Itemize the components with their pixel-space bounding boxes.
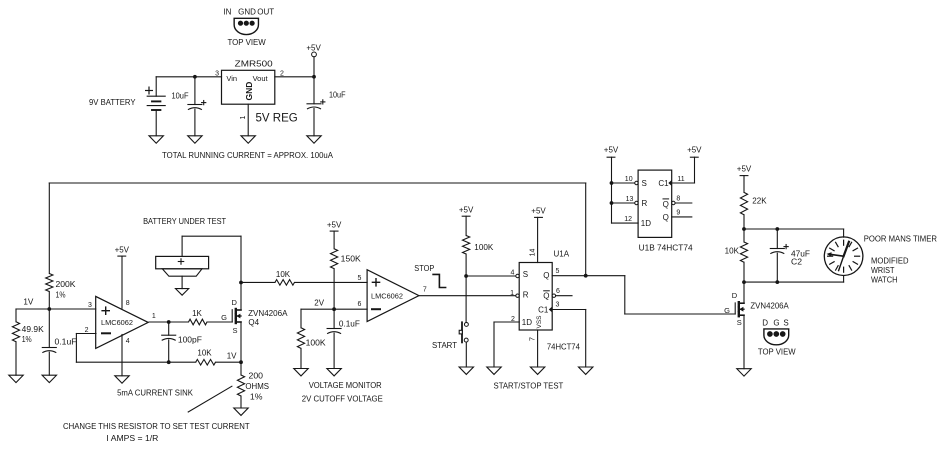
- ground VSS U1A: [530, 367, 544, 374]
- ground 200 ohm: [234, 408, 248, 415]
- svg-text:0.1uF: 0.1uF: [55, 337, 77, 346]
- capacitor C? 0.1uF sink: [42, 309, 76, 375]
- resistor R? 200 OHMS 1%: [237, 362, 269, 408]
- node +5V U1B clock: [672, 146, 702, 183]
- wire Vin: [156, 76, 221, 78]
- svg-text:6: 6: [358, 301, 362, 308]
- svg-text:10: 10: [625, 176, 633, 183]
- svg-text:IN: IN: [223, 7, 231, 16]
- svg-text:9V BATTERY: 9V BATTERY: [89, 98, 136, 107]
- pin 10 S wire: [612, 176, 635, 183]
- note change this resistor: [63, 422, 250, 443]
- svg-text:+5V: +5V: [604, 146, 619, 155]
- svg-text:200K: 200K: [56, 280, 77, 289]
- svg-text:LMC6062: LMC6062: [101, 320, 133, 327]
- regulator TO-92 package top view: [223, 7, 274, 47]
- svg-text:GND: GND: [244, 82, 254, 101]
- svg-text:1: 1: [240, 115, 247, 119]
- resistor R? 100K divider: [297, 309, 326, 368]
- leader line to 200 ohm resistor: [188, 386, 232, 412]
- svg-text:U1A: U1A: [554, 250, 570, 259]
- wire Q output net: [552, 183, 735, 314]
- svg-text:200: 200: [249, 372, 264, 381]
- node +5V timer: [737, 165, 752, 193]
- ground input cap: [188, 136, 202, 143]
- switch START pushbutton: [432, 322, 468, 367]
- node timer top rail: [742, 227, 844, 231]
- svg-text:ZMR500: ZMR500: [235, 60, 274, 69]
- svg-text:S: S: [232, 326, 237, 335]
- capacitor C? 100pF: [162, 322, 202, 364]
- svg-text:10K: 10K: [725, 247, 740, 256]
- battery B1 9V: [89, 77, 165, 136]
- wire 1D to ground: [494, 322, 519, 367]
- svg-text:G: G: [724, 306, 730, 315]
- svg-text:1: 1: [152, 313, 156, 320]
- svg-text:+5V: +5V: [115, 246, 130, 255]
- node +5V U1A VDD: [530, 207, 547, 263]
- wire pin4 to ground: [121, 335, 123, 376]
- svg-text:1D: 1D: [522, 318, 532, 327]
- svg-text:R: R: [523, 290, 529, 299]
- svg-text:+5V: +5V: [459, 206, 474, 215]
- svg-text:100pF: 100pF: [178, 335, 202, 344]
- svg-text:Q4: Q4: [248, 318, 259, 327]
- svg-text:5: 5: [358, 275, 362, 282]
- wire feedback to source: [76, 361, 241, 363]
- svg-text:TOP VIEW: TOP VIEW: [758, 348, 796, 357]
- svg-text:LMC6062: LMC6062: [371, 294, 403, 301]
- node +5V regulator output terminal: [306, 44, 321, 77]
- ground battery holder: [176, 289, 189, 296]
- svg-text:7: 7: [423, 287, 427, 294]
- svg-text:13: 13: [626, 196, 634, 203]
- svg-text:S: S: [523, 270, 528, 279]
- svg-text:1: 1: [510, 290, 514, 297]
- svg-text:Vout: Vout: [253, 74, 269, 83]
- transistor Q4 ZVN4206A: [221, 283, 288, 363]
- note STOP with falling edge pulse: [414, 264, 446, 288]
- svg-text:5V REG: 5V REG: [256, 113, 298, 125]
- svg-text:1D: 1D: [641, 219, 651, 228]
- svg-text:5: 5: [556, 268, 560, 275]
- svg-text:R: R: [642, 199, 648, 208]
- resistor R? 100K pullup: [463, 236, 494, 323]
- svg-text:1%: 1%: [22, 335, 32, 344]
- svg-text:+5V: +5V: [737, 165, 752, 174]
- timer wrist watch: [824, 229, 863, 282]
- resistor R? 1K gate: [189, 309, 233, 325]
- svg-text:BATTERY UNDER TEST: BATTERY UNDER TEST: [143, 217, 226, 226]
- op-amp U? LMC6062 current sink: [85, 296, 156, 348]
- svg-text:12: 12: [624, 216, 632, 223]
- svg-text:OUT: OUT: [257, 7, 274, 16]
- svg-text:ZVN4206A: ZVN4206A: [750, 302, 789, 311]
- svg-text:10uF: 10uF: [172, 91, 189, 100]
- svg-text:100K: 100K: [474, 243, 494, 252]
- capacitor C? 0.1uF monitor: [327, 309, 360, 368]
- svg-text:1V: 1V: [23, 298, 34, 307]
- ground 49.9K: [9, 375, 23, 382]
- svg-text:STOP: STOP: [414, 264, 434, 273]
- svg-text:MODIFIED: MODIFIED: [871, 257, 909, 266]
- node drain Q4: [239, 281, 243, 285]
- resistor R? 49.9K 1%: [12, 309, 44, 375]
- ground 0.1uF sink: [42, 375, 56, 382]
- node S input: [464, 274, 516, 278]
- svg-text:D: D: [762, 318, 768, 327]
- svg-text:VSS: VSS: [536, 315, 543, 329]
- regulator U? ZMR500 5V REG: [215, 60, 298, 125]
- svg-text:POOR MANS TIMER: POOR MANS TIMER: [864, 234, 938, 243]
- svg-text:START: START: [432, 341, 457, 350]
- svg-text:+5V: +5V: [306, 44, 321, 53]
- ground battery: [149, 136, 163, 143]
- svg-text:11: 11: [677, 176, 684, 183]
- resistor R? 10K to monitor: [241, 270, 367, 285]
- svg-text:S: S: [642, 179, 647, 188]
- ground output mosfet: [737, 369, 751, 376]
- svg-text:WATCH: WATCH: [871, 275, 898, 284]
- svg-text:GND: GND: [238, 7, 256, 16]
- resistor R? 150K: [331, 249, 362, 310]
- svg-text:2V: 2V: [314, 298, 324, 307]
- node 1V reference: [16, 298, 96, 311]
- svg-text:49.9K: 49.9K: [22, 325, 45, 334]
- ground output cap: [307, 136, 321, 143]
- svg-text:3: 3: [88, 302, 92, 309]
- node 1V source: [227, 351, 243, 364]
- svg-text:1%: 1%: [56, 290, 66, 299]
- svg-text:D: D: [732, 291, 738, 300]
- svg-text:8: 8: [126, 300, 130, 307]
- svg-text:8: 8: [676, 196, 680, 203]
- node +5V op-amp1 pin8: [115, 246, 130, 309]
- resistor R? 200K 1%: [46, 274, 77, 310]
- resistor R? 22K: [740, 192, 767, 229]
- wire op-amp1 output: [149, 320, 189, 324]
- node +5V pullup: [459, 206, 474, 236]
- svg-text:10K: 10K: [197, 348, 212, 357]
- svg-text:10K: 10K: [276, 270, 291, 279]
- svg-text:S: S: [737, 318, 742, 327]
- svg-text:Q: Q: [543, 292, 549, 301]
- svg-text:CHANGE THIS RESISTOR TO SET TE: CHANGE THIS RESISTOR TO SET TEST CURRENT: [63, 422, 250, 431]
- ground 100K divider: [294, 369, 308, 376]
- svg-text:WRIST: WRIST: [871, 266, 895, 275]
- svg-text:1V: 1V: [227, 351, 237, 360]
- transistor Q? ZVN4206A output: [724, 291, 789, 369]
- svg-text:100K: 100K: [306, 338, 327, 347]
- wire inverting input jog: [76, 334, 96, 363]
- ground C1: [579, 367, 593, 374]
- pin 6 Qbar stub: [556, 288, 572, 296]
- wire Q output feedback top rail: [49, 182, 585, 184]
- svg-text:+5V: +5V: [327, 221, 342, 230]
- svg-text:1K: 1K: [192, 309, 202, 318]
- svg-text:C1: C1: [538, 305, 549, 314]
- svg-text:2V CUTOFF VOLTAGE: 2V CUTOFF VOLTAGE: [302, 394, 383, 403]
- svg-text:Q: Q: [543, 271, 549, 280]
- svg-text:3: 3: [556, 302, 560, 309]
- svg-text:Q: Q: [663, 213, 669, 222]
- resistor R? 10K timer: [725, 229, 748, 303]
- resistor R? 10K feedback: [196, 348, 216, 365]
- svg-text:TOTAL RUNNING CURRENT = APPROX: TOTAL RUNNING CURRENT = APPROX. 100uA: [162, 151, 334, 160]
- svg-text:VOLTAGE MONITOR: VOLTAGE MONITOR: [309, 381, 382, 390]
- svg-text:Vin: Vin: [226, 74, 237, 83]
- ground start button: [459, 367, 473, 374]
- wire Vout to +5V node: [275, 76, 314, 78]
- svg-text:I AMPS = 1/R: I AMPS = 1/R: [106, 434, 158, 443]
- svg-text:+5V: +5V: [531, 207, 546, 216]
- svg-text:U1B 74HCT74: U1B 74HCT74: [639, 244, 694, 253]
- note poor mans timer: [864, 234, 938, 284]
- svg-text:4: 4: [511, 269, 515, 276]
- pin 13 R wire: [612, 196, 635, 203]
- svg-text:C2: C2: [791, 258, 803, 267]
- svg-text:S: S: [783, 318, 788, 327]
- svg-text:22K: 22K: [752, 197, 767, 206]
- wire stop signal to R input: [419, 295, 516, 297]
- ground 1D: [487, 367, 501, 374]
- svg-text:4: 4: [126, 338, 130, 345]
- pin 8 Qbar stub: [675, 196, 692, 204]
- battery holder battery under test: [156, 236, 209, 288]
- pin 7 VSS wire to ground: [527, 330, 537, 367]
- svg-text:14: 14: [530, 249, 537, 257]
- svg-text:+5V: +5V: [687, 146, 702, 155]
- ground 0.1uF monitor: [327, 369, 341, 376]
- svg-text:D: D: [231, 298, 237, 307]
- node timer bottom rail: [742, 280, 844, 284]
- pin 9 Q stub: [672, 210, 692, 217]
- capacitor C2 47uF: [770, 229, 810, 282]
- node 2V reference: [301, 298, 367, 311]
- svg-text:2: 2: [511, 316, 515, 323]
- svg-text:5mA CURRENT SINK: 5mA CURRENT SINK: [117, 389, 193, 398]
- svg-text:START/STOP TEST: START/STOP TEST: [494, 382, 564, 391]
- ground op-amp1: [115, 376, 129, 383]
- ground regulator: [241, 136, 255, 143]
- output TO-92 package top view: [758, 318, 796, 356]
- svg-text:OHMS: OHMS: [245, 382, 269, 391]
- svg-text:ZVN4206A: ZVN4206A: [248, 309, 288, 318]
- svg-text:0.1uF: 0.1uF: [339, 319, 360, 328]
- note voltage monitor: [302, 381, 383, 403]
- wire battery holder to drain node: [182, 236, 241, 282]
- node +5V 150K: [327, 221, 342, 249]
- svg-text:C1: C1: [658, 179, 669, 188]
- wire regulator GND lead: [247, 104, 249, 136]
- svg-text:G: G: [773, 318, 779, 327]
- flip-flop U1B 74HCT74: [635, 170, 693, 253]
- svg-text:10uF: 10uF: [329, 91, 346, 100]
- svg-text:7: 7: [527, 337, 536, 341]
- svg-text:9: 9: [676, 210, 680, 217]
- node +5V U1B inputs: [604, 146, 638, 223]
- svg-text:74HCT74: 74HCT74: [547, 343, 581, 352]
- svg-text:150K: 150K: [341, 255, 362, 264]
- op-amp U? LMC6062 voltage monitor: [358, 270, 427, 322]
- capacitor C? 10uF input: [172, 75, 206, 136]
- svg-text:TOP VIEW: TOP VIEW: [227, 38, 266, 47]
- svg-text:6: 6: [556, 288, 560, 295]
- pin 3 C1 wire to ground: [552, 302, 586, 367]
- flip-flop U1A 74HCT74: [516, 250, 581, 352]
- capacitor C? 10uF output: [307, 75, 346, 136]
- svg-text:G: G: [221, 313, 227, 322]
- svg-text:Q: Q: [663, 200, 669, 209]
- svg-text:1%: 1%: [250, 393, 263, 402]
